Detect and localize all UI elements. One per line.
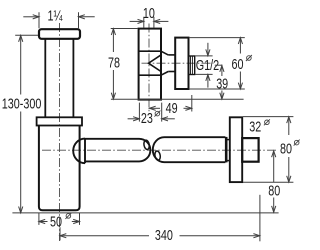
valve neck [168,55,175,72]
pipe stub to rosette [228,140,230,161]
dim 39 [215,65,224,99]
bottle top ring nut [37,117,82,125]
dim 78 [111,29,138,100]
dim 50 dia [39,213,80,225]
pipe wall nut face [225,137,228,163]
bottom reference line [12,212,278,214]
outlet nut arc [73,139,85,164]
centerline pipe horizontal [42,149,278,151]
svg-text:39: 39 [216,75,228,92]
pipe break ellipse right [154,151,161,161]
svg-text:78: 78 [108,54,120,71]
dia symbol 80 [294,140,300,146]
dim 23 dia [128,103,175,122]
dim 80 dia rosette [243,117,293,183]
pipe right segment [153,137,226,162]
svg-text:1¼: 1¼ [48,7,64,24]
dim 10 [130,17,169,28]
svg-text:32: 32 [249,118,261,135]
svg-text:130-300: 130-300 [2,95,42,112]
dim 1 1/4 [23,12,94,28]
dia symbol 60 [246,55,252,61]
wall rosette [230,117,242,182]
callout G1/2 [196,43,213,88]
svg-text:10: 10 [143,4,155,21]
svg-text:23: 23 [141,109,153,126]
svg-text:50: 50 [50,213,62,230]
valve body line upper [139,50,161,52]
dia symbol 50 [65,213,71,219]
valve body [139,29,161,100]
valve disc [175,38,188,89]
svg-text:60: 60 [232,55,244,72]
dia symbol 23 [154,111,160,117]
tailpipe tube [45,39,73,118]
valve thread nipple G1/2 [189,56,195,75]
pipe left segment [85,139,150,162]
dim 60 dia [189,38,245,89]
dim 130-300 [15,35,38,213]
svg-text:80: 80 [280,140,292,157]
dim 340 [60,195,260,242]
extension line bottom of valve [111,98,244,100]
wall flange top [39,29,80,39]
svg-text:340: 340 [155,226,173,243]
valve neck chamfers [161,51,168,75]
svg-text:49: 49 [166,99,178,116]
centerline trap vertical [59,23,61,241]
wall pipe stub 32 [242,138,258,162]
pipe break ellipse left [143,140,150,150]
valve cone [149,55,162,72]
dim 80 lower [272,151,276,212]
dim 49 [149,95,191,112]
dia symbol 32 [264,119,270,125]
centerline valve vertical [148,24,150,113]
valve body line lower [139,74,161,76]
svg-text:80: 80 [268,182,280,199]
bottle cup [39,126,80,211]
centerline valve outlet horizontal [142,62,214,64]
